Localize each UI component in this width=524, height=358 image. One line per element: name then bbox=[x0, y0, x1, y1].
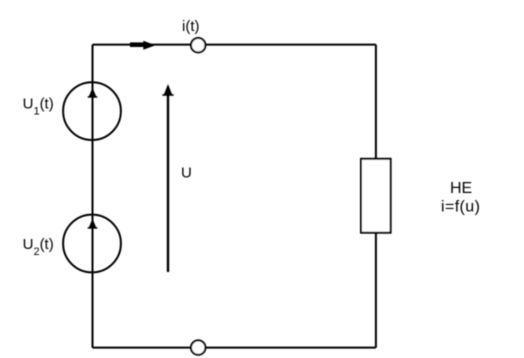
svg-text:i(t): i(t) bbox=[182, 18, 200, 35]
svg-text:HE: HE bbox=[450, 180, 472, 197]
svg-text:U: U bbox=[181, 165, 192, 182]
svg-text:i=f(u): i=f(u) bbox=[441, 199, 480, 216]
